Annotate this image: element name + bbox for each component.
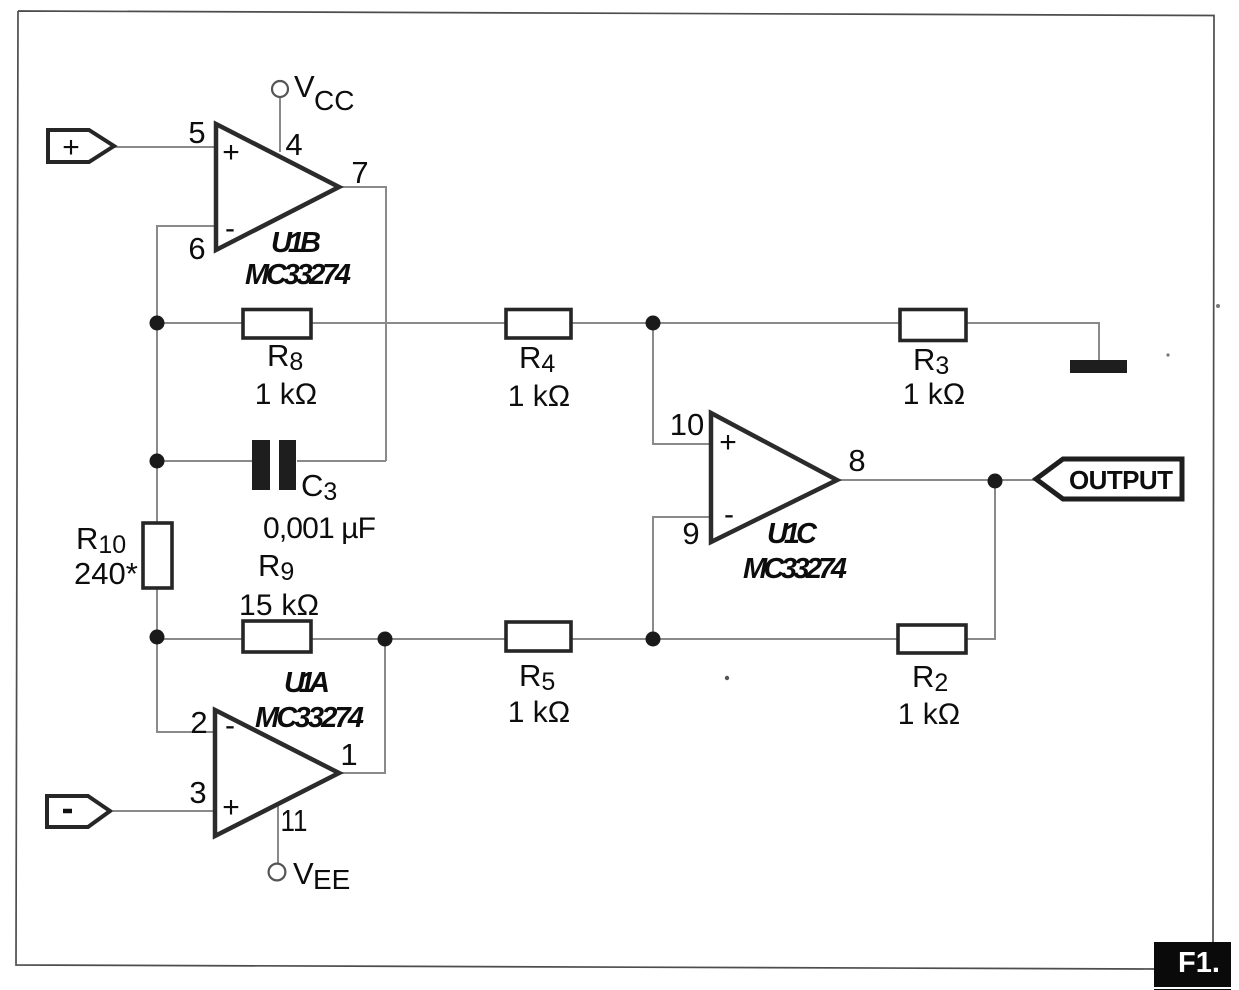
svg-text:10: 10 [670,407,704,442]
svg-text:V: V [293,856,314,891]
svg-text:7: 7 [351,155,368,190]
svg-text:EE: EE [313,864,350,895]
svg-text:OUTPUT: OUTPUT [1069,465,1173,495]
svg-text:-: - [724,498,734,531]
svg-text:6: 6 [188,231,205,266]
svg-text:MC33274: MC33274 [245,259,351,291]
svg-text:U1C: U1C [767,518,818,550]
svg-text:15 kΩ: 15 kΩ [239,589,319,622]
svg-text:5: 5 [188,115,205,150]
svg-text:0,001 µF: 0,001 µF [263,512,376,545]
svg-text:+: + [62,131,80,164]
svg-text:1 kΩ: 1 kΩ [898,698,960,731]
svg-text:U1A: U1A [284,667,330,699]
svg-text:+: + [222,136,240,169]
svg-text:9: 9 [682,516,699,551]
svg-text:1 kΩ: 1 kΩ [508,380,570,413]
svg-text:+: + [222,791,240,824]
svg-text:1 kΩ: 1 kΩ [508,696,570,729]
svg-text:4: 4 [285,127,302,162]
svg-text:V: V [294,69,315,104]
svg-text:U1B: U1B [271,227,321,259]
svg-text:8: 8 [848,443,865,478]
svg-text:MC33274: MC33274 [743,553,847,585]
svg-text:2: 2 [190,705,207,740]
svg-text:F1.: F1. [1178,947,1220,979]
svg-text:11: 11 [281,803,308,838]
svg-text:MC33274: MC33274 [255,702,364,734]
svg-text:1 kΩ: 1 kΩ [903,378,965,411]
svg-text:+: + [719,426,737,459]
svg-text:1 kΩ: 1 kΩ [255,378,317,411]
svg-text:240*: 240* [74,556,138,591]
svg-text:3: 3 [189,775,206,810]
svg-text:-: - [225,212,235,245]
svg-text:-: - [225,709,235,742]
svg-text:1: 1 [340,737,357,772]
svg-text:CC: CC [314,85,354,116]
